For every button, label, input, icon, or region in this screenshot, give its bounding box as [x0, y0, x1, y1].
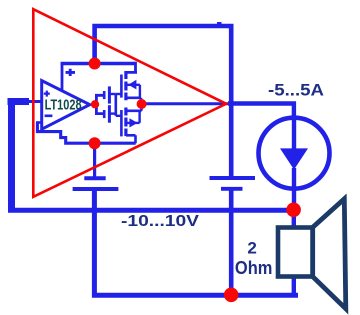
node dot op-amp output — [91, 100, 99, 108]
current source I1 inner wire bottom — [292, 168, 296, 189]
bias cell lower long bar — [108, 105, 111, 123]
wire apex to current source — [228, 104, 294, 119]
svg-text:-5...5A: -5...5A — [268, 81, 324, 100]
transistor Q1 channel dashes — [124, 71, 127, 100]
op-amp U1 LT1028 — [42, 81, 90, 130]
wire feedback staircase — [37, 123, 135, 144]
battery B2 long plate — [210, 176, 256, 180]
transistor Q1 body wire — [127, 85, 140, 98]
node dot supply bottom — [89, 137, 101, 149]
node dot load bottom — [224, 288, 239, 303]
current source I1 arrow — [280, 148, 308, 169]
node dot load top — [286, 203, 301, 218]
battery B1 long plate — [73, 187, 119, 191]
wire gate lead Q1 — [116, 93, 122, 95]
wire supply box top — [61, 62, 136, 66]
transistor Q1 gate bar — [120, 75, 123, 98]
bias cell upper long bar — [108, 86, 111, 103]
speaker box — [278, 228, 313, 277]
svg-text:-10...10V: -10...10V — [121, 213, 199, 230]
wire bottom rail — [94, 190, 298, 296]
wire mid rail — [8, 208, 294, 213]
svg-text:LT1028: LT1028 — [45, 98, 82, 114]
wire left vertical thick — [8, 98, 15, 210]
op-amp minus mark — [45, 115, 53, 118]
battery B2 short plate — [221, 187, 243, 191]
speaker horn — [313, 199, 346, 309]
wire node to speaker top — [292, 210, 296, 228]
node dot supply top — [89, 58, 101, 70]
wire op-amp inverting stub — [36, 121, 42, 124]
transistor Q2 body wire — [126, 111, 140, 123]
transistor Q1 drain lead — [126, 62, 137, 73]
transistor Q2 source lead — [126, 106, 142, 111]
transistor Q1 source lead — [126, 98, 141, 103]
wire speaker bottom to rail — [292, 276, 296, 295]
transistor Q1 body arrow — [128, 80, 136, 90]
wire supply box left — [61, 64, 64, 91]
svg-text:Ohm: Ohm — [235, 258, 273, 278]
top rail nub — [217, 22, 222, 25]
current source I1 circle — [259, 118, 330, 189]
wire bias upper out — [109, 93, 115, 95]
wire input terminal thick — [8, 98, 30, 105]
wire input to op-amp + — [29, 100, 42, 103]
wire top rail — [95, 26, 232, 176]
wire gate column — [115, 94, 118, 116]
battery B1 short plate — [84, 176, 105, 180]
svg-text:2: 2 — [247, 238, 256, 257]
bias cell lower short bar — [103, 110, 106, 118]
bias cell upper short bar — [103, 91, 106, 99]
wire battery B1 top lead — [93, 143, 96, 177]
wire gate bias lower L — [96, 107, 103, 114]
transistor Q2 gate bar — [120, 110, 123, 136]
wire output node to apex — [142, 102, 229, 105]
wire gate lead Q2 — [116, 115, 122, 117]
current source I1 inner wire top — [292, 118, 296, 149]
node dot source output — [137, 99, 147, 109]
wire battery B2 bottom lead — [229, 191, 234, 296]
plus sign V+ — [66, 69, 76, 76]
wire gate bias upper L — [96, 95, 103, 102]
transistor Q2 body arrow — [129, 118, 137, 127]
composite amplifier red triangle — [33, 9, 226, 197]
wire current source to node — [292, 189, 296, 210]
op-amp plus mark — [44, 91, 50, 97]
transistor Q2 channel dashes — [124, 108, 127, 137]
transistor Q2 drain lead — [126, 135, 136, 143]
wire bias lower out — [109, 112, 115, 114]
